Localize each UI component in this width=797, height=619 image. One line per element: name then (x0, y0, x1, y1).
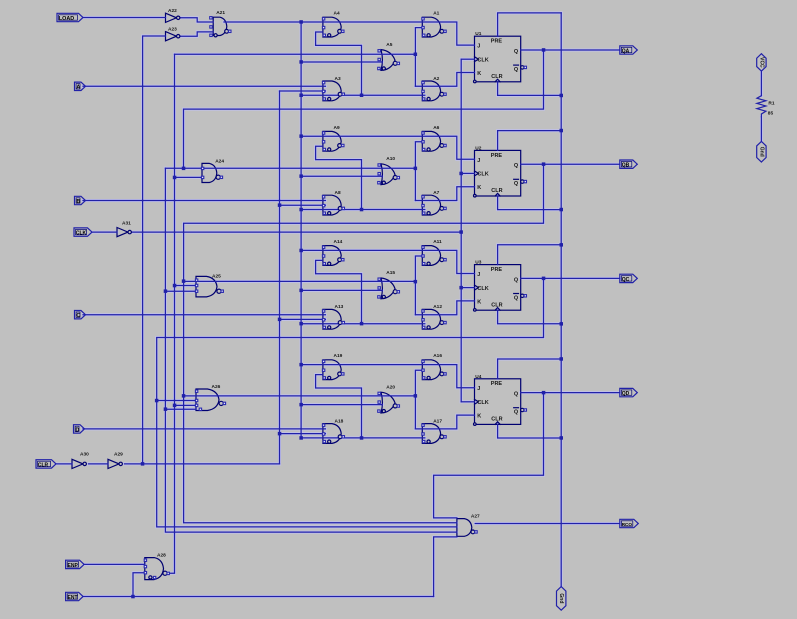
svg-text:A25: A25 (212, 274, 221, 280)
svg-text:Q: Q (514, 277, 519, 283)
svg-text:CLR: CLR (491, 188, 502, 194)
svg-text:K: K (477, 71, 481, 77)
svg-text:B: B (76, 199, 80, 205)
svg-text:Q: Q (514, 295, 519, 301)
svg-text:K: K (477, 414, 481, 420)
svg-text:A30: A30 (80, 452, 89, 458)
svg-text:Q: Q (514, 163, 519, 169)
svg-text:J: J (477, 158, 480, 164)
svg-text:A23: A23 (168, 27, 177, 33)
svg-text:PRE: PRE (491, 153, 503, 159)
svg-text:Gnd: Gnd (758, 147, 764, 157)
svg-text:A1: A1 (433, 11, 439, 17)
svg-text:Q: Q (514, 181, 519, 187)
svg-text:Q: Q (514, 410, 519, 416)
svg-text:U1: U1 (475, 31, 481, 37)
svg-text:U3: U3 (475, 260, 481, 266)
svg-text:Q: Q (514, 49, 519, 55)
svg-text:VCC: VCC (758, 57, 764, 68)
svg-text:A15: A15 (386, 270, 395, 276)
svg-text:Q: Q (514, 392, 519, 398)
svg-text:A7: A7 (433, 190, 439, 196)
svg-text:QD: QD (622, 391, 630, 397)
svg-text:A6: A6 (433, 125, 439, 131)
svg-text:A11: A11 (433, 239, 442, 245)
svg-text:A20: A20 (386, 384, 395, 390)
svg-text:A5: A5 (386, 42, 392, 48)
svg-text:U2: U2 (475, 145, 481, 151)
svg-text:CLR: CLR (38, 462, 49, 468)
svg-text:A21: A21 (216, 10, 225, 16)
svg-text:QB: QB (622, 163, 630, 169)
svg-text:A24: A24 (215, 158, 224, 164)
svg-text:A31: A31 (122, 221, 131, 227)
svg-text:A2: A2 (433, 76, 439, 82)
svg-text:A19: A19 (334, 353, 343, 359)
svg-text:85: 85 (768, 111, 774, 117)
svg-text:A27: A27 (471, 514, 480, 520)
svg-text:A28: A28 (157, 552, 166, 558)
svg-text:CLK: CLK (477, 286, 488, 292)
svg-text:J: J (477, 44, 480, 50)
svg-text:R1: R1 (768, 100, 774, 106)
svg-text:PRE: PRE (491, 39, 503, 45)
svg-text:CLR: CLR (491, 302, 502, 308)
svg-text:A17: A17 (433, 418, 442, 424)
svg-text:A9: A9 (334, 125, 340, 131)
svg-text:CLK: CLK (477, 58, 488, 64)
svg-text:A8: A8 (335, 190, 341, 196)
svg-text:CLR: CLR (491, 74, 502, 80)
svg-text:Q: Q (514, 67, 519, 73)
svg-text:A14: A14 (334, 239, 343, 245)
svg-text:J: J (477, 386, 480, 392)
svg-text:K: K (477, 299, 481, 305)
svg-text:ENT: ENT (68, 595, 78, 601)
svg-text:A16: A16 (433, 353, 442, 359)
svg-text:Gnd: Gnd (558, 593, 564, 603)
svg-text:CLK: CLK (76, 231, 87, 237)
svg-text:A4: A4 (334, 11, 340, 17)
svg-text:QA: QA (622, 48, 630, 54)
svg-text:K: K (477, 185, 481, 191)
svg-text:RCO: RCO (622, 522, 633, 527)
svg-text:QC: QC (622, 277, 630, 283)
svg-text:A: A (76, 85, 80, 91)
svg-text:LOAD: LOAD (59, 16, 74, 22)
svg-text:A26: A26 (212, 384, 221, 390)
svg-text:C: C (76, 313, 80, 319)
svg-text:U4: U4 (475, 374, 481, 380)
svg-text:A3: A3 (335, 76, 341, 82)
svg-text:D: D (75, 427, 79, 433)
svg-text:J: J (477, 272, 480, 278)
svg-text:CLK: CLK (477, 400, 488, 406)
svg-text:PRE: PRE (491, 381, 503, 387)
svg-text:A10: A10 (386, 156, 395, 162)
svg-text:A22: A22 (168, 8, 177, 14)
svg-text:A29: A29 (114, 452, 123, 458)
svg-text:CLR: CLR (491, 417, 502, 423)
svg-text:PRE: PRE (491, 267, 503, 273)
svg-text:A18: A18 (335, 418, 344, 424)
svg-text:A13: A13 (335, 304, 344, 310)
svg-text:ENP: ENP (68, 563, 79, 569)
svg-text:A12: A12 (433, 304, 442, 310)
svg-text:CLK: CLK (477, 172, 488, 178)
